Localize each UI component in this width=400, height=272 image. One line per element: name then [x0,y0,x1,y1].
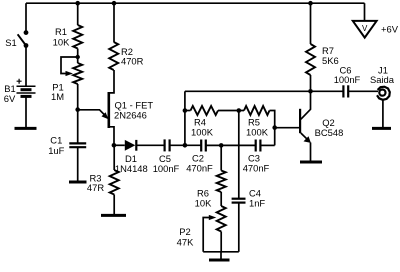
svg-text:R1: R1 [55,26,67,37]
svg-text:P2: P2 [179,226,190,237]
wire +6V stub [364,3,366,20]
wire C3 to Q2 base riser [260,144,274,146]
wire main line to D1 [114,144,125,146]
wire rail to R2 [113,3,115,42]
svg-text:+6V: +6V [381,24,399,35]
wire Q2 emitter to ground [310,143,312,161]
svg-text:100K: 100K [191,127,214,138]
node P1-C1-Q1 junction [75,107,80,112]
transistor Q1 emitter arrow [102,112,109,119]
wire main to R6 [220,145,222,170]
wire bottom ground stub [220,252,222,259]
diode D1 [125,140,136,151]
potentiometer P1 [73,63,82,84]
node R4 left junction [183,108,188,113]
svg-text:1N4148: 1N4148 [115,163,148,174]
wire rail to R7 [310,3,312,44]
svg-text:V: V [362,24,368,33]
wire top supply rail [26,2,365,4]
resistor R7 [306,44,315,75]
svg-text:470R: 470R [121,56,144,67]
wire R2 to Q1 drain [109,70,114,93]
svg-text:6V: 6V [4,93,16,104]
svg-text:10K: 10K [53,37,70,48]
svg-text:1uF: 1uF [48,145,64,156]
wire D1 to C5 [136,144,164,146]
wire feedback top [185,90,343,92]
wire S1 to B1 [25,46,27,86]
transistor Q2 emitter arrow [304,136,311,143]
ground below J1 [372,127,391,130]
resistor R5 [244,106,270,115]
wire R1 to P1 [77,49,79,64]
transistor Q1 channel bar [108,92,111,128]
svg-text:100nF: 100nF [153,163,180,174]
svg-text:100nF: 100nF [334,74,361,85]
node feedback tap junction [183,143,188,148]
ground below B1 [15,127,37,130]
wire feedback vertical [184,91,186,145]
resistor R6 [217,171,226,193]
node top rail junction at R7 column [308,1,313,6]
wire C4 to bottom [238,203,240,252]
svg-text:Saida: Saida [370,74,395,85]
resistor R1 [73,25,82,49]
switch S1 [24,30,29,35]
ground below Q2 [300,161,322,164]
resistor R3 [110,170,119,195]
svg-text:5K6: 5K6 [322,55,339,66]
ground below C1 [69,181,87,184]
node main line left junction [112,143,117,148]
node Q2 base junction [272,125,277,130]
resistor R4 [191,106,219,115]
node R4-R5 junction [237,108,242,113]
svg-text:10K: 10K [195,198,212,209]
ground below R3 [101,214,126,217]
wire R3 to ground [113,195,115,215]
wire main to R3 [113,145,115,170]
wire C5 to C2 [170,144,201,146]
svg-text:BC548: BC548 [315,127,344,138]
svg-text:470nF: 470nF [243,163,270,174]
wire Q2 emitter [301,133,308,140]
transistor Q2 base bar [299,109,301,133]
svg-text:470nF: 470nF [186,163,213,174]
connector J1 jack [377,87,390,100]
capacitor C2 [200,140,202,152]
capacitor C6 [342,85,344,97]
node top rail junction at R1 column [75,1,80,6]
wire P1 to C1 [77,84,79,143]
node top rail junction at R2 column [112,1,117,6]
wire Q1 source to main line [109,127,114,146]
resistor R2 [109,42,118,70]
wire R5 right to base node [270,111,275,146]
node collector junction [308,89,313,94]
power +6V supply triangle [353,21,377,38]
wire R4R5 junction down through main line to C4 [238,111,240,199]
node R6 top junction [219,143,224,148]
wire B1 to ground [25,96,27,127]
wire bottom tie [203,251,239,253]
wire Q2 collector [301,91,311,119]
wire C2 to C3 [206,144,256,146]
capacitor C5 [164,139,166,151]
wire R7 to collector node [310,75,312,91]
svg-text:1M: 1M [51,91,64,102]
svg-text:100K: 100K [246,127,269,138]
svg-text:47R: 47R [87,182,104,193]
battery B1 [17,85,36,87]
wire Q1 emitter diagonal [78,110,105,115]
svg-text:47K: 47K [177,237,194,248]
wire P2 to bottom [220,232,222,252]
wire C6 to J1 [348,90,378,92]
node R1-P1 wiper tie [76,55,80,59]
wire J1 to ground [382,99,384,127]
svg-text:1nF: 1nF [249,198,265,209]
wire R4 to R5 [218,110,244,112]
ground bottom [209,259,230,262]
wire rail to S1 [25,3,27,30]
capacitor C4 [232,198,246,200]
capacitor C3 [255,140,257,152]
wire R6 to P2 [220,192,222,206]
svg-text:S1: S1 [5,37,16,48]
capacitor C1 [69,142,86,144]
svg-text:2N2646: 2N2646 [114,110,147,121]
wire Q2 base [275,127,299,129]
wire rail to R1 [77,3,79,25]
potentiometer P2 [217,206,226,232]
wire R4 left lead [185,110,191,112]
wire C1 to ground [77,147,79,181]
